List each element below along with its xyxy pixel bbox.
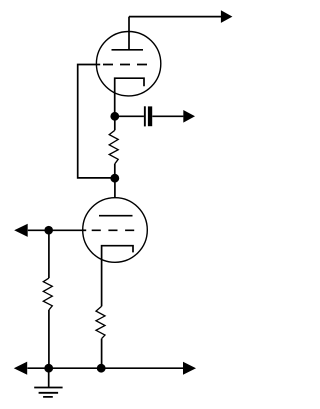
V1 plate [112,17,144,50]
terminal arrow capacitor output [183,110,195,123]
capacitor C1 [144,106,146,126]
wire R2 to ground rail [48,310,50,368]
terminal arrow ground rail left [14,362,27,375]
junction node B [110,174,119,183]
triode V2 envelope [83,198,148,263]
wire node C down to resistor R2 [48,230,50,278]
wire V2 grid to input arrow [28,229,83,231]
wire capacitor to output arrow [152,115,183,117]
V2 plate [99,215,133,217]
terminal arrow output top (B+) [221,10,233,23]
wire V1 plate to output arrow [129,16,221,18]
V1 cathode [115,78,144,95]
terminal arrow ground rail right [183,362,196,375]
V2 cathode [102,246,133,260]
wire node A to R1 [114,116,116,178]
resistor R1 [109,130,118,164]
ground [34,388,62,397]
junction node A [110,112,119,121]
V2 grid [83,229,87,231]
junction node E [97,364,106,373]
resistor R3 [96,306,105,338]
wire node B to V2 plate [114,178,116,198]
wire node A to capacitor [115,115,144,117]
wire V1 grid feedback loop [78,65,115,178]
junction node D [44,364,53,373]
junction node C [44,226,53,235]
wire V2 cathode to resistor R3 [101,260,103,307]
ground lead wire [48,368,50,387]
wire R3 to ground rail [101,339,103,369]
terminal arrow input left [14,224,28,237]
wire V1 cathode to node A [114,95,116,116]
ground rail wire [27,367,183,369]
triode V1 envelope [96,32,160,96]
resistor R2 [43,278,52,310]
V1 grid [97,64,101,66]
